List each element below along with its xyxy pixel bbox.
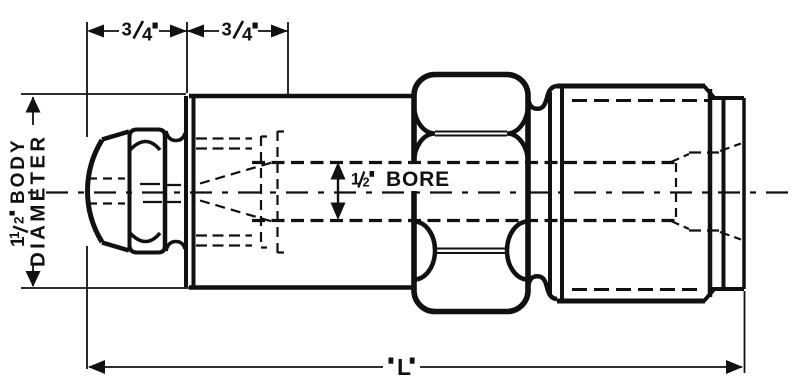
svg-text:1: 1 xyxy=(7,231,22,239)
centerline xyxy=(28,191,36,193)
body diameter dimension vertical with arrows xyxy=(32,97,34,286)
hidden thread line top B xyxy=(196,147,252,149)
hex nut chamfer arcs bottom-left xyxy=(414,222,435,280)
end ring top edge xyxy=(712,96,744,100)
dimension line 3/4 second segment xyxy=(187,30,288,32)
hex nut chamfer arcs bottom-right xyxy=(507,222,528,280)
hidden cone lower xyxy=(200,201,272,222)
hidden outlet chamfer top xyxy=(720,144,741,152)
svg-text:4: 4 xyxy=(142,24,153,45)
hidden wide bore bottom xyxy=(689,229,720,231)
hidden thread line top A xyxy=(196,137,252,139)
bevel top-right xyxy=(704,86,714,98)
body top edge xyxy=(189,94,413,99)
acorn hex right edge xyxy=(163,132,168,250)
L arrowhead right xyxy=(726,360,743,374)
svg-text:2: 2 xyxy=(12,216,27,224)
bevel bottom-right xyxy=(704,290,714,302)
hidden outlet chamfer bottom xyxy=(720,232,741,240)
hex nut face line top (double) xyxy=(435,132,507,136)
arrowhead left seg1 xyxy=(87,25,104,38)
L extension line right xyxy=(744,291,746,373)
hidden cone upper xyxy=(200,163,272,184)
cylinder bottom edge xyxy=(557,299,705,304)
text 1-1/2 BODY rotated xyxy=(7,138,29,248)
dimension line 3/4 first segment xyxy=(89,30,187,32)
acorn hex chamfer arch bottom xyxy=(130,233,160,242)
dome top flat xyxy=(102,132,129,140)
bore hidden line top xyxy=(252,161,675,164)
hex nut face line bottom (double) xyxy=(435,249,507,254)
arrowhead right seg2 xyxy=(271,25,288,38)
cylinder top edge xyxy=(557,84,705,89)
svg-text:BORE: BORE xyxy=(386,168,450,191)
bore dimension double arrow xyxy=(337,176,339,207)
text 1/2 BORE xyxy=(351,168,450,191)
neck top between nut and cylinder xyxy=(529,86,558,109)
body left face line 1 xyxy=(184,96,188,287)
extension line right (x=288) xyxy=(287,22,289,94)
arrowhead right seg1 xyxy=(170,25,187,38)
text DIAMETER rotated xyxy=(27,134,50,267)
L arrowhead left xyxy=(88,360,105,374)
text 3/4 second xyxy=(222,19,258,45)
acorn hidden dashes xyxy=(88,179,125,204)
hidden step diagonal top xyxy=(670,154,689,163)
text 3/4 first xyxy=(122,19,158,45)
acorn neck top xyxy=(166,131,185,141)
svg-text:DIAMETER: DIAMETER xyxy=(27,134,50,267)
svg-text:3: 3 xyxy=(222,19,232,40)
end ring right face xyxy=(742,98,746,289)
body diameter extension line bottom xyxy=(21,287,189,289)
cylinder hidden line bottom xyxy=(572,288,702,291)
hidden thread line bottom A xyxy=(196,244,252,246)
acorn hex top edge xyxy=(130,130,166,138)
hidden step vertical 2 xyxy=(276,131,278,253)
end ring inner vertical xyxy=(722,98,726,289)
arrowhead left seg2 xyxy=(187,25,204,38)
hidden thread line bottom B xyxy=(196,234,252,236)
hidden step vertical 1 xyxy=(260,136,262,248)
hex nut outline xyxy=(414,75,528,312)
acorn neck bottom xyxy=(166,242,185,252)
body diameter extension line top xyxy=(21,93,186,95)
cylinder left face line 1 xyxy=(548,92,552,294)
extension line left (x=87) xyxy=(86,22,88,369)
hidden bore step vertical xyxy=(675,163,677,220)
end ring bottom edge xyxy=(712,287,744,291)
arrowhead up xyxy=(26,97,41,113)
svg-text:2: 2 xyxy=(363,176,370,190)
acorn hex chamfer arch top xyxy=(130,142,160,151)
hex nut chamfer arcs top-right xyxy=(507,105,528,163)
svg-text:3: 3 xyxy=(122,19,132,40)
hidden wide bore top xyxy=(689,151,720,153)
acorn hex left division xyxy=(128,132,132,250)
hidden step diagonal bottom xyxy=(670,221,689,230)
cylinder right face xyxy=(708,89,713,297)
acorn hex bottom edge xyxy=(130,245,166,253)
svg-text:4: 4 xyxy=(242,24,253,45)
body left face line 2 xyxy=(192,97,196,287)
extension line middle (x=187) xyxy=(186,22,188,93)
neck bottom between nut and cylinder xyxy=(529,276,558,299)
hex nut chamfer arcs top-left xyxy=(414,105,435,163)
acorn cap dome xyxy=(88,140,102,242)
body bottom edge xyxy=(189,285,413,290)
cylinder hidden line top xyxy=(572,99,708,102)
svg-text:L: L xyxy=(397,354,411,380)
arrowhead down xyxy=(26,271,41,287)
cylinder left face line 2 xyxy=(560,87,564,299)
acorn face tick dashes xyxy=(166,185,181,202)
dome bottom flat xyxy=(102,243,129,251)
text L xyxy=(389,354,415,380)
L dimension line xyxy=(89,366,742,368)
bore hidden line bottom xyxy=(252,219,675,222)
